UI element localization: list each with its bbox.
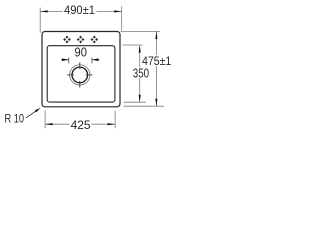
dim 90 right extension line bbox=[91, 58, 93, 64]
svg-text:425: 425 bbox=[71, 118, 91, 132]
dim 350 bottom extension line bbox=[124, 101, 146, 103]
dim 490 left arrow bbox=[40, 10, 48, 12]
dim 490 line left segment bbox=[40, 10, 63, 12]
dim 425 right extension line bbox=[114, 111, 116, 129]
dim 475 line lower segment bbox=[155, 66, 157, 106]
dim 475 bottom extension line bbox=[124, 105, 164, 107]
dim 425 line left segment bbox=[45, 123, 69, 125]
dim 475 bottom arrow bbox=[155, 99, 157, 107]
tap hole marker 2 bbox=[77, 36, 85, 44]
radius leader arrowhead bbox=[35, 108, 41, 112]
svg-text:490±1: 490±1 bbox=[64, 3, 95, 17]
dim 475 line upper segment bbox=[155, 32, 157, 56]
dim 475 top extension line bbox=[121, 30, 160, 32]
sink outer rim rectangle bbox=[42, 32, 120, 107]
dim 350 bottom arrow bbox=[139, 95, 141, 103]
dim 350 line lower segment bbox=[139, 78, 141, 102]
svg-text:350: 350 bbox=[133, 66, 149, 80]
dim 350 line upper segment bbox=[139, 45, 141, 67]
dim 90 left outside line bbox=[61, 59, 69, 61]
radius leader line bbox=[26, 111, 36, 118]
dim 425 left extension line bbox=[44, 111, 46, 129]
svg-text:R 10: R 10 bbox=[5, 113, 25, 126]
dim 490 right arrow bbox=[114, 10, 122, 12]
dim 425 line right segment bbox=[92, 123, 116, 125]
dim 90 right arrow pointing left bbox=[92, 58, 99, 61]
dim 350 top extension line bbox=[123, 44, 143, 46]
drain outer circle bbox=[70, 65, 90, 85]
bowl inner rectangle bbox=[47, 46, 115, 102]
tap hole marker 1 bbox=[63, 36, 71, 44]
dim 475 top arrow bbox=[155, 32, 157, 40]
drain tick east bbox=[86, 74, 93, 76]
dim 490 left extension line bbox=[39, 8, 41, 33]
tap hole marker 3 bbox=[90, 36, 98, 44]
drain tick west bbox=[67, 74, 74, 76]
dim 90 left arrow pointing right bbox=[62, 58, 69, 61]
drain inner circle bbox=[72, 67, 88, 83]
svg-text:90: 90 bbox=[75, 46, 87, 60]
dim 490 right extension line bbox=[121, 6, 123, 30]
dim 425 right arrow bbox=[108, 123, 116, 125]
dim 490 line right segment bbox=[97, 10, 122, 12]
dim 425 left arrow bbox=[45, 123, 53, 125]
drain tick south bbox=[79, 81, 81, 88]
dim 90 right outside line bbox=[92, 59, 99, 61]
drain tick north bbox=[79, 62, 81, 69]
dim 350 top arrow bbox=[139, 45, 141, 53]
dim 90 left extension line bbox=[68, 58, 70, 64]
